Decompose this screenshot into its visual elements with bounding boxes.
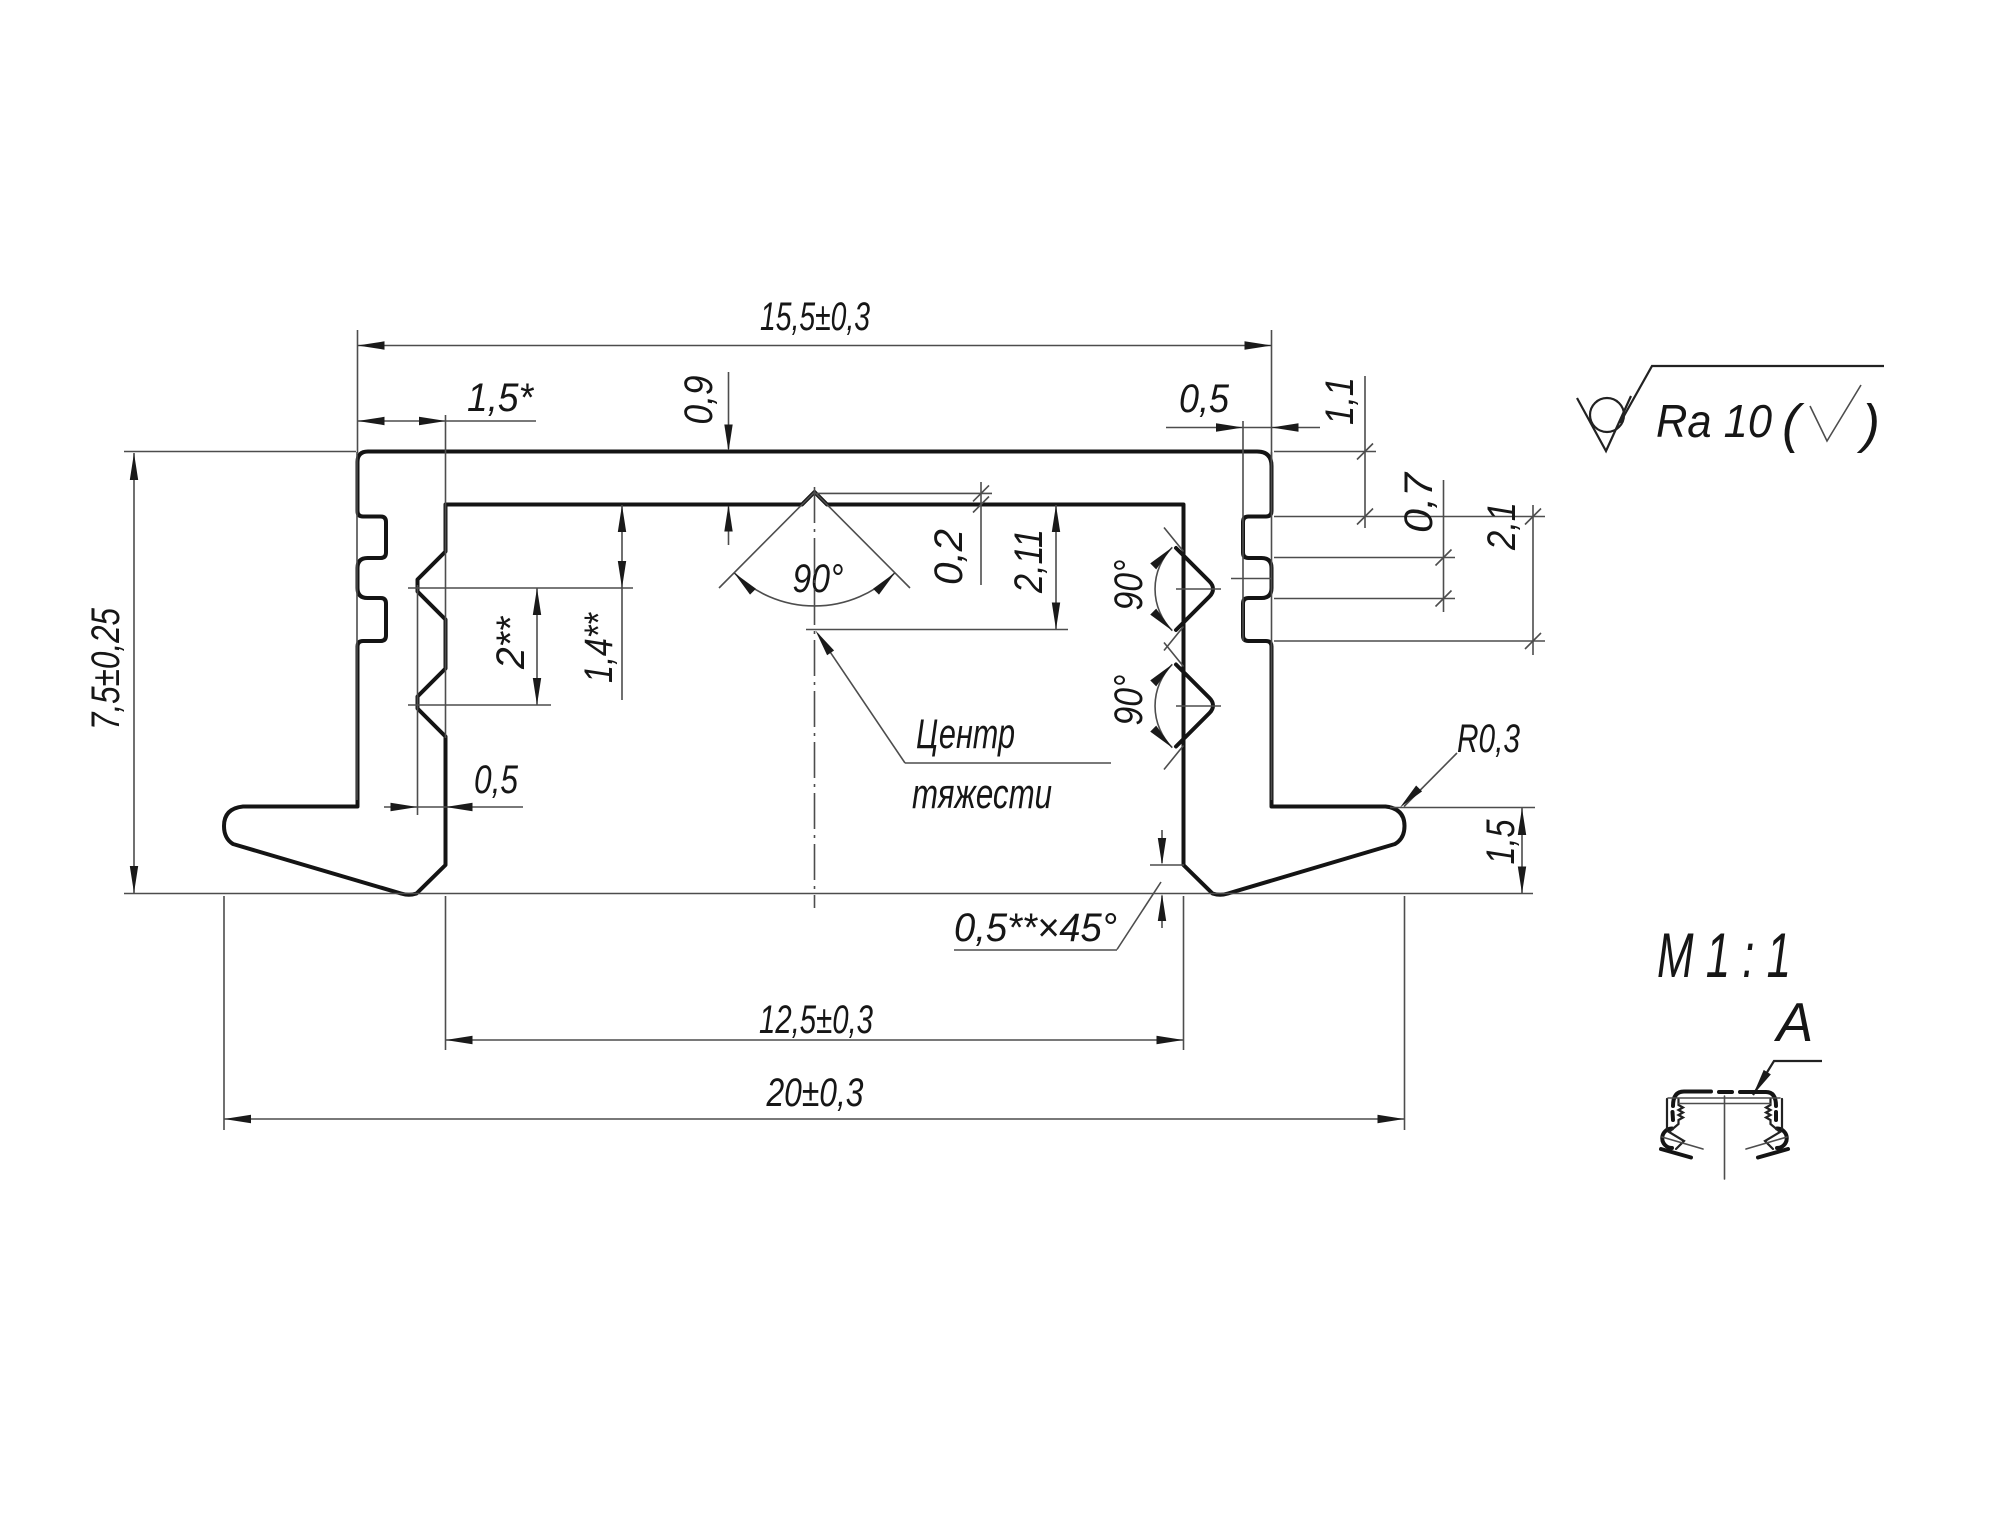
dimension 15,5±0,3 xyxy=(358,345,1272,347)
svg-text:7,5±0,25: 7,5±0,25 xyxy=(84,607,128,730)
svg-text:1,4**: 1,4** xyxy=(577,612,621,683)
svg-text:20±0,3: 20±0,3 xyxy=(766,1071,864,1115)
svg-text:2,1: 2,1 xyxy=(1480,502,1524,551)
svg-text:2**: 2** xyxy=(489,616,533,670)
dimension 7,5±0,25 xyxy=(133,453,135,893)
tooth2 90 deg dimension xyxy=(1164,643,1184,667)
tangent thin line right wall xyxy=(1271,452,1273,800)
dimension 12,5±0,3 xyxy=(445,896,447,1050)
svg-text:15,5±0,3: 15,5±0,3 xyxy=(760,295,870,339)
svg-text:12,5±0,3: 12,5±0,3 xyxy=(759,998,873,1042)
svg-text:M 1 : 1: M 1 : 1 xyxy=(1657,921,1791,991)
svg-text:0,2: 0,2 xyxy=(927,529,971,585)
svg-text:A: A xyxy=(1774,991,1814,1053)
dimension 1,5 right foot xyxy=(1521,808,1523,894)
dimension 2,1 xyxy=(1532,505,1534,655)
dimension 1,4** xyxy=(621,505,623,700)
extension line x358 top xyxy=(357,330,359,453)
Ra roughness symbol xyxy=(1577,396,1631,451)
svg-text:90°: 90° xyxy=(1107,560,1151,611)
R0,3 leader xyxy=(1404,753,1457,807)
svg-text:0,5: 0,5 xyxy=(474,758,519,802)
dimension 2,11 xyxy=(1055,505,1057,630)
dimension 2** xyxy=(536,588,538,705)
dimension 0,7 xyxy=(1443,480,1445,612)
svg-text:1,5*: 1,5* xyxy=(467,376,534,420)
A leader xyxy=(1753,1061,1822,1095)
svg-text:тяжести: тяжести xyxy=(912,770,1052,817)
profile outline xyxy=(224,452,1405,895)
extension line x1271 top xyxy=(1271,330,1273,462)
svg-text:90°: 90° xyxy=(793,557,844,601)
mini view A icon xyxy=(1661,1092,1788,1180)
dimension 1,5* xyxy=(358,420,537,422)
svg-text:0,9: 0,9 xyxy=(677,376,721,425)
dimension 0,9 xyxy=(728,372,730,449)
dimension 0,5 left serration xyxy=(384,806,523,808)
dimension 0,2 xyxy=(980,482,982,585)
tooth V-groove 1 right wall xyxy=(1176,548,1213,630)
CG leader xyxy=(818,634,905,763)
tooth1 90 deg dimension xyxy=(1164,528,1184,552)
svg-text:Центр: Центр xyxy=(916,710,1015,757)
bottom reference line xyxy=(124,893,1533,895)
svg-text:90°: 90° xyxy=(1107,675,1151,726)
svg-text:0,5: 0,5 xyxy=(1179,377,1230,421)
tooth V-groove 2 right wall xyxy=(1176,665,1213,747)
center V 90 deg dimension xyxy=(719,492,815,588)
centerline dash-dot xyxy=(814,487,816,908)
svg-text:1,5: 1,5 xyxy=(1479,819,1523,865)
dimension 20±0,3 xyxy=(223,896,225,1130)
svg-text:1,1: 1,1 xyxy=(1318,377,1362,425)
svg-text:0,5**×45°: 0,5**×45° xyxy=(954,906,1117,950)
svg-text:0,7: 0,7 xyxy=(1397,471,1441,533)
svg-text:2,11: 2,11 xyxy=(1007,529,1051,594)
svg-text:Ra 10: Ra 10 xyxy=(1656,395,1772,447)
tangent thin line left wall xyxy=(356,452,358,800)
centre of gravity line xyxy=(806,629,1068,631)
svg-text:R0,3: R0,3 xyxy=(1457,717,1520,761)
dimension 0,5 right notch xyxy=(1166,427,1320,429)
dimension 1,1 xyxy=(1364,376,1366,528)
chamfer 0,5x45 callout xyxy=(1161,830,1163,863)
tab centre mark right wall xyxy=(1231,578,1272,580)
